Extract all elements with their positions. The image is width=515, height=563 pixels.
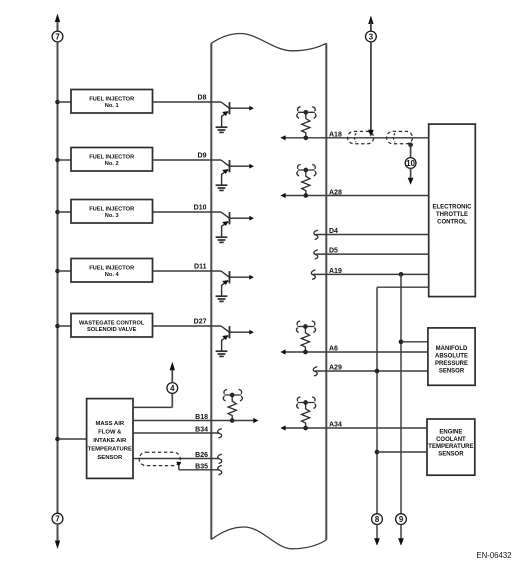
wire: bus to fuel injector No.2 xyxy=(58,159,72,161)
svg-text:D11: D11 xyxy=(194,264,207,271)
svg-text:No. 4: No. 4 xyxy=(105,272,120,278)
junction: bus to wastegate control solenoid valve xyxy=(55,324,60,329)
node 9 arrow (down) xyxy=(398,524,404,545)
svg-text:SENSOR: SENSOR xyxy=(438,452,464,458)
svg-text:WASTEGATE CONTROL: WASTEGATE CONTROL xyxy=(79,321,145,327)
svg-text:7: 7 xyxy=(55,514,59,523)
ECM connector band (right edge) xyxy=(325,43,327,540)
fuel injector No.3 (box) xyxy=(71,200,153,224)
wire: pin A19 to electronic throttle control xyxy=(313,273,429,275)
transistor Q4 (fuel injector No.4 driver) xyxy=(221,271,254,296)
circled node 10 xyxy=(405,158,416,169)
wire: bus to wastegate control solenoid valve xyxy=(58,325,72,327)
wire: electronic throttle control to sensor ground line xyxy=(377,286,429,288)
svg-text:D9: D9 xyxy=(198,153,207,160)
ground: Q1 emitter xyxy=(216,127,228,132)
svg-text:FUEL INJECTOR: FUEL INJECTOR xyxy=(89,97,134,103)
wire: supply line to MAP sensor xyxy=(401,341,428,343)
svg-text:No. 3: No. 3 xyxy=(105,213,119,219)
wire: bus to mass air flow sensor xyxy=(58,438,87,440)
svg-text:FLOW &: FLOW & xyxy=(98,430,122,436)
ECM connector band (left edge) xyxy=(210,43,212,539)
svg-text:D10: D10 xyxy=(194,205,207,212)
circled node 7 (bottom) xyxy=(52,513,63,524)
wire break at B26 xyxy=(218,454,222,463)
svg-text:A19: A19 xyxy=(329,268,342,275)
wire: MAF sensor to pin B26 xyxy=(133,458,219,460)
node 3 arrow (down onto A18 shield) xyxy=(368,16,373,32)
arrow: A34 into ECM circuitry xyxy=(280,425,285,430)
wire break at A29 xyxy=(313,367,317,376)
engine coolant temperature sensor (box) xyxy=(427,419,475,475)
wire: bus to fuel injector No.1 xyxy=(58,101,72,103)
svg-text:A28: A28 xyxy=(329,189,342,196)
pull-up resistor & internal supply at pin A34 xyxy=(297,397,316,430)
shield (dashed) around B26 wire xyxy=(139,452,180,465)
svg-text:COOLANT: COOLANT xyxy=(436,437,466,443)
pull-up resistor & internal supply at pin A28 xyxy=(297,165,316,198)
wire: fuel injector No.1 to ECM pin D8 xyxy=(153,101,222,103)
figure number EN-06432 xyxy=(476,551,511,560)
wire break at D4 xyxy=(314,230,318,239)
svg-text:MANIFOLD: MANIFOLD xyxy=(436,346,468,352)
svg-text:A34: A34 xyxy=(329,422,342,429)
ECM connector band (top torn edge) xyxy=(211,34,326,51)
wire: wastegate control solenoid valve to ECM pin D27 xyxy=(153,325,222,327)
pin label A6 xyxy=(329,346,338,353)
transistor Q1 (fuel injector No.1 driver) xyxy=(221,102,254,127)
node 7 arrow (bottom of left bus) xyxy=(55,524,60,549)
wire: coolant temperature sensor to sensor ground line xyxy=(377,451,427,453)
svg-text:ENGINE: ENGINE xyxy=(439,430,462,436)
wire: shield drain to pin B35 xyxy=(179,469,220,471)
wire: left supply bus xyxy=(57,42,59,513)
junction: bus to fuel injector No.2 xyxy=(55,158,60,163)
circled node 8 xyxy=(372,514,383,525)
node 8 arrow (down) xyxy=(374,524,380,545)
arrow: A28 into ECM circuitry xyxy=(280,193,285,198)
svg-text:FUEL INJECTOR: FUEL INJECTOR xyxy=(89,207,134,213)
ground: Q2 emitter xyxy=(216,185,228,190)
ground: Q3 emitter xyxy=(216,237,228,242)
svg-text:No. 2: No. 2 xyxy=(105,161,119,167)
wire: pin A29 to MAP sensor xyxy=(315,370,428,372)
svg-text:A6: A6 xyxy=(329,346,338,353)
node 4 arrow (up) xyxy=(170,362,175,383)
pin label D4 xyxy=(329,228,338,235)
node 7 arrow (top of left bus) xyxy=(55,14,60,32)
wire: fuel injector No.4 to ECM pin D11 xyxy=(153,270,222,272)
transistor Q2 (fuel injector No.2 driver) xyxy=(221,160,254,185)
fuel injector No.1 (box) xyxy=(71,90,153,114)
svg-text:B35: B35 xyxy=(195,463,208,470)
svg-text:FUEL INJECTOR: FUEL INJECTOR xyxy=(89,155,134,161)
svg-text:D27: D27 xyxy=(194,319,207,326)
svg-text:INTAKE AIR: INTAKE AIR xyxy=(93,438,127,444)
svg-text:B34: B34 xyxy=(195,427,208,434)
svg-text:3: 3 xyxy=(369,32,374,41)
manifold absolute pressure sensor (box) xyxy=(428,328,475,385)
pull-up resistor & internal supply at pin B18 xyxy=(223,390,242,423)
junction: A29 to sensor ground line xyxy=(375,369,380,374)
junction: bus to fuel injector No.3 xyxy=(55,210,60,215)
transistor Q5 (wastegate control solenoid valve driver) xyxy=(221,326,254,351)
svg-text:SENSOR: SENSOR xyxy=(439,368,465,374)
pin label A19 xyxy=(329,268,342,275)
wastegate control solenoid valve (box) xyxy=(71,314,153,338)
wire: pin D5 to electronic throttle control xyxy=(316,253,429,255)
junction: coolant sensor to sensor ground line xyxy=(375,450,380,455)
pin label D8 xyxy=(198,95,207,102)
svg-text:7: 7 xyxy=(55,32,59,41)
wire: sensor ground vertical line (node 8) xyxy=(376,287,378,514)
junction: bus to fuel injector No.4 xyxy=(55,269,60,274)
svg-text:4: 4 xyxy=(170,384,175,393)
svg-text:ABSOLUTE: ABSOLUTE xyxy=(435,354,468,360)
junction: bus to mass air flow sensor xyxy=(55,437,60,442)
wire: MAF sensor to pin B34 xyxy=(133,432,219,434)
svg-text:ELECTRONIC: ELECTRONIC xyxy=(433,205,473,211)
pin label B26 xyxy=(195,452,208,459)
wire: MAF sensor to node 4 xyxy=(133,393,172,407)
junction: supply line to MAP sensor xyxy=(399,339,404,344)
wire: bus to fuel injector No.4 xyxy=(58,270,72,272)
wire break at D5 xyxy=(314,250,318,259)
shield drain arrow to B35 xyxy=(176,462,181,470)
svg-text:THROTTLE: THROTTLE xyxy=(436,212,468,218)
wire: pin A34 to coolant temperature sensor xyxy=(285,427,427,429)
svg-text:10: 10 xyxy=(406,159,415,168)
pin label B35 xyxy=(195,463,208,470)
svg-text:D4: D4 xyxy=(329,228,338,235)
svg-text:EN-06432: EN-06432 xyxy=(476,551,511,560)
arrow: B18 into ECM circuitry xyxy=(232,418,258,423)
junction: A18 shield to node 10 xyxy=(408,143,413,148)
svg-text:B18: B18 xyxy=(195,414,208,421)
svg-text:9: 9 xyxy=(399,515,404,524)
ECM connector band (bottom torn edge) xyxy=(211,527,326,549)
wire: pin D4 to electronic throttle control xyxy=(316,234,429,236)
pin label D27 xyxy=(194,319,207,326)
mass air flow & intake air temperature sensor (box) xyxy=(87,399,133,479)
pin label D11 xyxy=(194,264,207,271)
pin label D5 xyxy=(329,248,338,255)
pin label A34 xyxy=(329,422,342,429)
wire: bus to fuel injector No.3 xyxy=(58,211,72,213)
fuel injector No.4 (box) xyxy=(71,259,153,283)
svg-text:A29: A29 xyxy=(329,365,342,372)
shield connector (dashed) on A18 wire, second xyxy=(387,131,413,143)
arrow: A18 into ECM circuitry xyxy=(280,135,285,140)
electronic throttle control (box) xyxy=(429,124,476,297)
wire break at A19 xyxy=(311,270,315,279)
fuel injector No.2 (box) xyxy=(71,148,153,172)
svg-text:FUEL INJECTOR: FUEL INJECTOR xyxy=(89,266,134,272)
wire: fuel injector No.2 to ECM pin D9 xyxy=(153,159,222,161)
pin label B18 xyxy=(195,414,208,421)
pin label A28 xyxy=(329,189,342,196)
svg-text:No. 1: No. 1 xyxy=(105,103,119,109)
junction: bus to fuel injector No.1 xyxy=(55,100,60,105)
junction: A19 to sensor supply line xyxy=(399,272,404,277)
svg-text:D8: D8 xyxy=(198,95,207,102)
wire: node 3 to A18 shield xyxy=(368,42,374,137)
svg-text:SOLENOID VALVE: SOLENOID VALVE xyxy=(87,327,137,333)
circled node 3 xyxy=(366,31,377,42)
wire: pin A18 to electronic throttle control xyxy=(285,137,429,139)
pin label B34 xyxy=(195,427,208,434)
wire break at B35 xyxy=(218,465,222,474)
pin label A29 xyxy=(329,365,342,372)
wire: A18 shield to node 10 xyxy=(410,145,412,158)
svg-text:SENSOR: SENSOR xyxy=(97,455,123,461)
pin label A18 xyxy=(329,132,342,139)
wire: pin A28 to electronic throttle control xyxy=(285,195,429,197)
svg-text:D5: D5 xyxy=(329,248,338,255)
arrow: A6 into ECM circuitry xyxy=(280,349,285,354)
pull-up resistor & internal supply at pin A6 xyxy=(296,321,315,354)
node 10 arrow (down) xyxy=(408,168,414,184)
circled node 9 xyxy=(396,514,407,525)
svg-text:A18: A18 xyxy=(329,132,342,139)
wire: sensor supply vertical line (node 9) xyxy=(400,274,402,514)
pin label D10 xyxy=(194,205,207,212)
ground: Q5 emitter xyxy=(216,351,228,356)
pin label D9 xyxy=(198,153,207,160)
circled node 7 (top) xyxy=(52,31,63,42)
svg-text:TEMPERATURE: TEMPERATURE xyxy=(428,444,473,450)
svg-text:8: 8 xyxy=(375,515,380,524)
wire: MAF sensor to pin B18 xyxy=(133,420,232,422)
svg-text:MASS AIR: MASS AIR xyxy=(96,421,125,427)
ground: Q4 emitter xyxy=(216,296,228,301)
wire: pin A6 to MAP sensor xyxy=(285,351,428,353)
wire: fuel injector No.3 to ECM pin D10 xyxy=(153,211,222,213)
transistor Q3 (fuel injector No.3 driver) xyxy=(221,212,254,237)
wire break at B34 xyxy=(218,429,222,438)
shield connector (dashed) on A18 wire, first xyxy=(348,131,374,143)
circled node 4 xyxy=(167,383,178,394)
svg-text:B26: B26 xyxy=(195,452,208,459)
svg-text:PRESSURE: PRESSURE xyxy=(435,361,468,367)
svg-text:CONTROL: CONTROL xyxy=(437,220,467,226)
svg-text:TEMPERATURE: TEMPERATURE xyxy=(88,446,132,452)
pull-up resistor & internal supply at pin A18 xyxy=(297,107,316,140)
